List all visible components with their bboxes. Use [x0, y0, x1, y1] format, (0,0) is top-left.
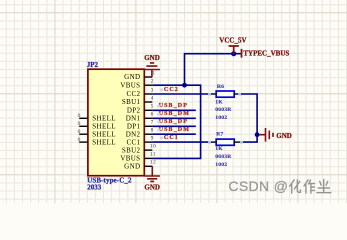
resistor R6	[209, 91, 241, 97]
pin 8 DN2 stub	[145, 133, 153, 135]
svg-text:DN1: DN1	[126, 115, 141, 123]
pin names inside body	[120, 73, 140, 170]
svg-text:USB_DP: USB_DP	[159, 103, 188, 109]
svg-text:VBUS: VBUS	[120, 82, 140, 90]
pin 7 DP1 stub	[145, 125, 153, 127]
svg-text:10: 10	[150, 143, 156, 149]
svg-text:SHELL: SHELL	[92, 138, 116, 146]
wire CC1 pin9 to R7	[152, 141, 208, 143]
svg-text:VCC_5V: VCC_5V	[219, 36, 246, 44]
pin 10 SBU2 stub	[145, 149, 153, 151]
pin 9 CC1 stub	[145, 141, 153, 143]
net label snap marks	[157, 89, 163, 140]
svg-text:SBU2: SBU2	[122, 147, 141, 155]
pin 12 GND stub	[145, 165, 153, 167]
ground bottom (pin12)	[145, 166, 160, 181]
svg-text:GND: GND	[124, 163, 140, 171]
connection highlight marks	[208, 93, 243, 144]
svg-text:2033: 2033	[87, 183, 102, 191]
svg-text:USB_DM: USB_DM	[159, 111, 190, 117]
svg-text:1002: 1002	[215, 162, 227, 168]
svg-text:DP2: DP2	[127, 107, 141, 115]
svg-text:GND: GND	[124, 73, 140, 81]
wire VBUS branch up to VCC_5V rail	[185, 54, 241, 85]
ground top (pin1)	[144, 63, 160, 77]
power port TYPEC_VBUS	[241, 49, 243, 58]
svg-text:0: 0	[78, 137, 81, 143]
svg-text:GND: GND	[144, 54, 160, 62]
ground right (CC rail)	[259, 128, 273, 142]
connector J body USB-type-C	[88, 69, 144, 176]
svg-text:SHELL: SHELL	[92, 123, 116, 131]
svg-text:1K: 1K	[215, 99, 223, 105]
svg-text:CC2: CC2	[164, 87, 179, 93]
junction GND rail	[255, 132, 260, 137]
pin 5 DP2 stub	[145, 109, 153, 111]
svg-text:12: 12	[150, 160, 156, 166]
junction VCC_5V	[231, 51, 236, 56]
svg-text:9: 9	[151, 135, 154, 141]
svg-text:JP2: JP2	[87, 61, 99, 69]
svg-text:DN2: DN2	[126, 130, 141, 138]
svg-text:1: 1	[152, 70, 155, 76]
wire R6 right to GND rail down to R7 right	[240, 94, 257, 142]
wire USB_DM pin6	[152, 117, 196, 119]
svg-text:CC1: CC1	[164, 135, 179, 141]
svg-text:6: 6	[151, 112, 154, 118]
svg-text:CC2: CC2	[127, 90, 141, 98]
wire CC2 pin3 to R6	[152, 93, 208, 95]
svg-text:R7: R7	[216, 132, 223, 138]
svg-text:GND: GND	[144, 184, 160, 192]
left shell pin 0 c	[79, 133, 88, 135]
pin 3 CC2 stub	[145, 93, 153, 95]
wire VBUS pin2 to corner, down, to pin11	[152, 85, 200, 158]
pin numbers left 0	[78, 113, 81, 143]
svg-text:GND: GND	[276, 132, 292, 140]
svg-text:USB_DP: USB_DP	[159, 119, 188, 125]
left shell pin 0 a	[79, 117, 88, 119]
svg-text:SHELL: SHELL	[92, 115, 116, 123]
svg-text:DP1: DP1	[127, 123, 141, 131]
svg-text:0: 0	[78, 121, 81, 127]
power port VCC_5V	[229, 46, 239, 54]
svg-text:SHELL: SHELL	[92, 130, 116, 138]
watermark hua	[290, 180, 301, 193]
svg-text:7: 7	[151, 120, 154, 126]
pin 11 VBUS stub	[145, 157, 153, 159]
left shell pin 0 b	[79, 125, 88, 127]
svg-text:VBUS: VBUS	[120, 155, 140, 163]
svg-text:CSDN @: CSDN @	[228, 178, 288, 194]
svg-text:1K: 1K	[215, 146, 223, 152]
svg-text:R6: R6	[217, 84, 224, 90]
svg-text:3: 3	[151, 87, 154, 93]
pin 6 DN1 stub	[145, 117, 153, 119]
watermark chen	[317, 179, 331, 192]
svg-text:SBU1: SBU1	[122, 98, 141, 106]
svg-text:0603R: 0603R	[215, 154, 232, 160]
svg-text:8: 8	[151, 128, 154, 134]
svg-text:2: 2	[151, 79, 154, 85]
svg-text:USB_DM: USB_DM	[159, 127, 190, 133]
svg-text:0: 0	[78, 113, 81, 119]
wire USB_DP pin7	[152, 125, 196, 127]
svg-text:11: 11	[150, 152, 156, 158]
pin 4 SBU1 stub	[145, 101, 153, 103]
pin numbers right	[150, 70, 156, 165]
junction VBUS branch	[182, 83, 187, 88]
resistor R7	[209, 139, 243, 145]
svg-text:CC1: CC1	[127, 138, 141, 146]
svg-text:0: 0	[78, 129, 81, 135]
svg-text:TYPEC_VBUS: TYPEC_VBUS	[243, 50, 289, 58]
pin 2 VBUS stub	[145, 84, 153, 86]
watermark zuo	[304, 180, 315, 193]
wire USB_DP pin5	[152, 109, 196, 111]
wire USB_DM pin8	[152, 133, 196, 135]
left shell pin 0 d	[79, 141, 88, 143]
svg-text:0603R: 0603R	[215, 107, 232, 113]
pin 1 GND stub	[145, 76, 153, 78]
svg-text:4: 4	[151, 95, 154, 101]
svg-text:5: 5	[151, 104, 154, 110]
svg-text:1002: 1002	[215, 115, 227, 121]
